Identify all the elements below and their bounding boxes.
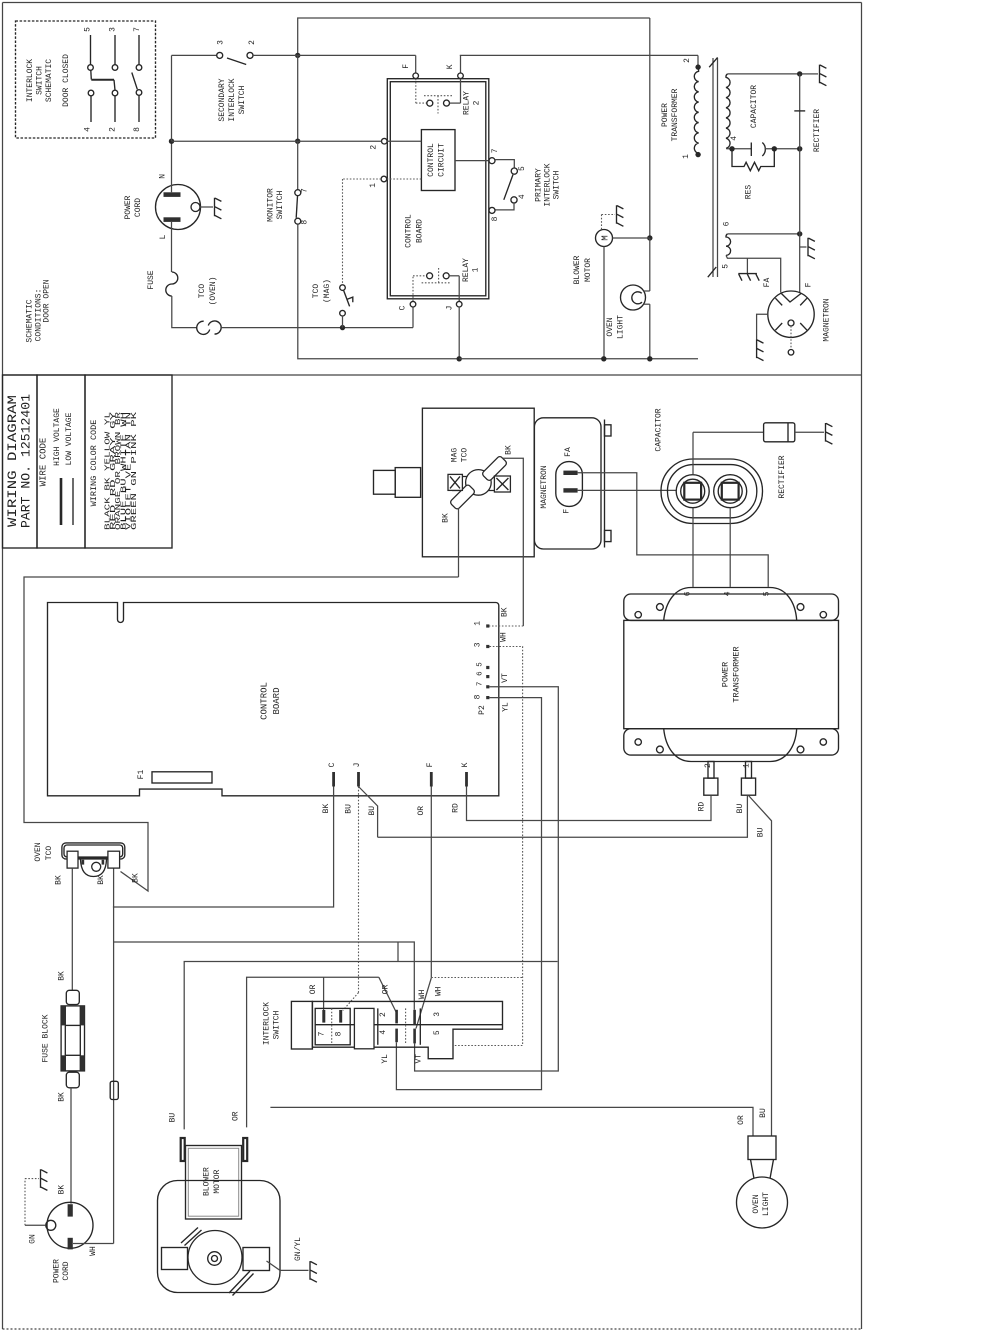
blower right tab [243, 1248, 270, 1271]
wire pin1 to TCO mag [343, 178, 382, 180]
primary interlock lead 7-5 [495, 160, 514, 168]
node HV top junction [797, 71, 802, 76]
svg-text:WIRING COLOR CODE: WIRING COLOR CODE [89, 420, 99, 507]
interlock slot 7 [322, 1010, 325, 1023]
transformer HV secondary winding [726, 74, 730, 148]
svg-text:DOOR OPEN: DOOR OPEN [43, 279, 52, 322]
svg-text:WH: WH [89, 1246, 98, 1256]
wire pin J BU dotted drop [358, 787, 360, 993]
node LV top junction [797, 231, 802, 236]
capacitor C1 plates [750, 143, 752, 157]
page border bottom [3, 1328, 862, 1330]
title block box 3 [85, 375, 172, 548]
svg-text:OVEN: OVEN [34, 842, 43, 861]
control board pin J tab [357, 772, 360, 787]
svg-text:1: 1 [472, 267, 481, 272]
svg-text:2: 2 [683, 58, 692, 63]
wire line A drop [649, 18, 651, 238]
svg-text:POWER: POWER [53, 1259, 62, 1283]
svg-text:5: 5 [433, 1030, 442, 1035]
svg-text:4: 4 [724, 591, 733, 596]
wire fuse block down [70, 1088, 72, 1204]
transformer pin 2 stub [708, 762, 714, 779]
title block box 1 [3, 375, 38, 548]
wire H4 dotted [431, 977, 522, 979]
mag TCO terminal upper [481, 455, 507, 481]
node TCO MAG junction [340, 325, 345, 330]
P2 pin 3 square [486, 645, 489, 648]
oven light neck [751, 1160, 755, 1179]
oven TCO bar [78, 857, 108, 859]
magnetron body edge [604, 420, 606, 548]
oven light lamp [621, 285, 646, 310]
svg-text:3: 3 [217, 40, 226, 45]
wire BU blower run [184, 962, 557, 1130]
svg-text:VT: VT [501, 673, 510, 683]
power cord bottom blade [68, 1238, 73, 1250]
svg-text:RD: RD [451, 803, 460, 813]
svg-text:F: F [426, 762, 435, 767]
transformer LV winding [726, 234, 731, 256]
wire M down [603, 247, 605, 359]
node blower junction [647, 235, 652, 240]
node transformer pin 2 [695, 64, 700, 69]
svg-text:BU: BU [757, 827, 766, 837]
ground at LV winding [746, 258, 748, 273]
svg-text:BLOWER: BLOWER [203, 1167, 212, 1196]
wire P2 pin 3 WH [453, 647, 523, 1046]
svg-text:MOTOR: MOTOR [213, 1169, 222, 1193]
svg-text:BK: BK [442, 513, 451, 523]
svg-text:4: 4 [730, 136, 739, 141]
transformer body [624, 620, 839, 728]
power cord plug circle [156, 185, 201, 230]
section divider [3, 374, 862, 376]
svg-text:CAPACITOR: CAPACITOR [750, 85, 759, 128]
wire pin2 to control circuit [387, 140, 421, 142]
power cord top blade [68, 1204, 73, 1216]
svg-text:TRANSFORMER: TRANSFORMER [671, 88, 680, 141]
interlock 7-8 divider [331, 1008, 333, 1044]
interlock 7-8 box [315, 1008, 350, 1044]
wire HV top [728, 73, 800, 75]
ground at power cord [215, 198, 222, 219]
blower hub [208, 1252, 222, 1266]
interlock switch body [312, 1001, 502, 1058]
transformer core [712, 58, 714, 277]
svg-text:RELAY: RELAY [463, 91, 472, 115]
mag TCO lug [374, 470, 396, 494]
svg-text:BK: BK [97, 875, 106, 885]
page border top [3, 2, 862, 4]
wire HV bottom [726, 148, 751, 150]
svg-text:(MAG): (MAG) [323, 279, 332, 303]
svg-text:3: 3 [109, 27, 118, 32]
wire monitor upper [297, 55, 299, 141]
svg-text:CONTROL: CONTROL [405, 214, 414, 248]
wire capacitor right [765, 148, 800, 150]
svg-text:CORD: CORD [134, 198, 143, 217]
svg-text:PART NO. 12512401: PART NO. 12512401 [20, 394, 34, 528]
oven TCO body [62, 843, 125, 859]
wire TCO mag to L bus [342, 316, 344, 328]
P2 pin 7 square [486, 685, 489, 688]
primary interlock contact 5 [511, 168, 517, 174]
svg-text:F: F [563, 509, 572, 514]
svg-text:7: 7 [317, 1031, 326, 1036]
transformer top hump [664, 588, 797, 621]
transformer top flange [624, 594, 839, 620]
svg-text:TCO: TCO [312, 284, 321, 299]
wire pin C riser [412, 307, 414, 328]
svg-text:7: 7 [301, 188, 310, 193]
interlock switch left cap [291, 1001, 312, 1049]
oven TCO tab left [82, 860, 85, 865]
wire BU pin1 to oven light [749, 796, 772, 1137]
wire power cord ground [200, 206, 213, 208]
magnetron body [534, 418, 601, 549]
primary interlock contact 4 [511, 197, 517, 203]
ground at HV secondary [820, 65, 827, 86]
wire OR to oven light [270, 1107, 753, 1136]
svg-text:2: 2 [370, 145, 379, 150]
svg-text:1: 1 [743, 763, 752, 768]
control board box [48, 603, 499, 796]
svg-text:FUSE BLOCK: FUSE BLOCK [42, 1014, 51, 1062]
svg-text:RD: RD [697, 802, 706, 812]
wire P2 pin 8 YL [396, 698, 541, 1090]
svg-text:VT: VT [415, 1054, 424, 1064]
svg-text:7: 7 [491, 148, 500, 153]
svg-text:7: 7 [133, 27, 142, 32]
node lamp bus junction [647, 356, 652, 361]
mag TCO disc [466, 470, 492, 496]
monitor switch blade [296, 196, 297, 218]
fuse block tube [64, 1006, 66, 1071]
fuse block bottom cap [66, 1072, 79, 1088]
wire magnetron case ground [757, 314, 768, 339]
transformer bottom flange holes [635, 739, 641, 745]
wire oven TCO down [71, 868, 73, 990]
wire pin K segment [460, 54, 698, 56]
pin F [415, 55, 417, 73]
wire line A top [298, 18, 650, 55]
wire OR slot7 drop [323, 977, 325, 1011]
svg-text:BK: BK [500, 607, 509, 617]
svg-text:HIGH VOLTAGE: HIGH VOLTAGE [53, 408, 62, 466]
control circuit box [421, 130, 455, 191]
P2 pin 5 square [486, 666, 489, 669]
TCO mag blade [344, 290, 350, 306]
svg-text:K: K [446, 64, 455, 69]
ground at rectifier [826, 423, 833, 444]
svg-text:1: 1 [682, 154, 691, 159]
svg-text:C: C [328, 762, 337, 767]
oven TCO arch [81, 860, 107, 877]
node transformer pin 1 [695, 152, 700, 157]
svg-text:4: 4 [84, 127, 93, 132]
svg-text:1: 1 [474, 621, 483, 626]
svg-text:OVEN: OVEN [606, 317, 615, 336]
svg-text:N: N [159, 174, 168, 179]
ground at magnetron [757, 340, 764, 361]
wire bottom bus [459, 358, 698, 360]
svg-text:J: J [446, 306, 455, 311]
secondary interlock contact 2 [247, 52, 253, 58]
svg-text:BK: BK [132, 873, 141, 883]
magnetron terminal F bar [563, 488, 577, 492]
fuse block clip BR [80, 1055, 84, 1071]
interlock slot 8 [339, 1010, 342, 1023]
svg-text:FA: FA [564, 447, 573, 457]
svg-text:F1: F1 [137, 770, 146, 780]
svg-text:CIRCUIT: CIRCUIT [438, 143, 447, 177]
svg-text:L: L [159, 234, 168, 239]
oven light bulb [737, 1177, 788, 1228]
pin 7 [489, 158, 495, 164]
svg-text:OR: OR [737, 1115, 746, 1125]
WH connector [110, 1081, 118, 1099]
wire pin J slant [359, 787, 378, 838]
svg-text:K: K [461, 762, 470, 767]
svg-text:OVEN: OVEN [752, 1194, 761, 1213]
relay 2 [415, 79, 417, 104]
svg-text:2: 2 [473, 100, 482, 105]
svg-text:4: 4 [518, 194, 527, 199]
TCO mag thermal tick [347, 297, 353, 302]
svg-text:INTERLOCK: INTERLOCK [228, 78, 237, 121]
node N junction [169, 139, 174, 144]
oven TCO terminal left [67, 851, 78, 868]
svg-text:FA: FA [763, 278, 772, 288]
wire WH run [113, 868, 115, 1243]
svg-text:BK: BK [322, 804, 331, 814]
svg-text:LOW VOLTAGE: LOW VOLTAGE [65, 412, 74, 465]
svg-text:P2: P2 [478, 705, 487, 715]
control board pin C tab [332, 772, 335, 787]
wire LV bottom [726, 255, 781, 292]
TCO oven symbol [197, 321, 210, 334]
mag TCO terminal lower [449, 484, 475, 510]
wire monitor lower [298, 224, 459, 359]
blower hatch lower [229, 1271, 250, 1293]
svg-text:MAG: MAG [451, 448, 460, 463]
power cord line blade [164, 217, 181, 222]
svg-text:4: 4 [379, 1030, 388, 1035]
svg-text:LIGHT: LIGHT [617, 315, 626, 339]
P2 pin 6 square [486, 675, 489, 678]
mag TCO screw left [448, 474, 462, 490]
primary interlock blade [504, 175, 513, 200]
wire N line [172, 140, 382, 142]
interlock divider right [377, 1008, 379, 1044]
resistor RES [732, 149, 774, 171]
rectifier line [799, 74, 801, 293]
interlock dashdot [405, 1008, 407, 1044]
svg-text:OR: OR [417, 806, 426, 816]
monitor switch contact 8 [295, 218, 301, 224]
capacitor outer [661, 459, 763, 524]
svg-text:POWER: POWER [124, 195, 133, 219]
svg-text:MAGNETRON: MAGNETRON [540, 465, 549, 508]
wire GN [25, 1224, 46, 1226]
svg-text:6: 6 [684, 591, 693, 596]
magnetron filament V [781, 294, 801, 303]
wire N lead [171, 141, 173, 192]
svg-text:F: F [805, 282, 814, 287]
wire FA to transformer 5 [578, 473, 769, 587]
wire BU dotted slant [343, 993, 359, 1011]
wire capacitor to rectifier [692, 432, 694, 474]
wire pin F OR drop [430, 787, 432, 978]
blower BU terminal [181, 1138, 185, 1161]
svg-text:WIRING DIAGRAM: WIRING DIAGRAM [6, 395, 20, 527]
capacitor inner [668, 465, 757, 518]
wire M to junction [613, 237, 650, 239]
control board pin K tab [465, 772, 468, 787]
interlock center block [354, 1008, 374, 1048]
svg-text:3: 3 [474, 642, 483, 647]
svg-text:SCHEMATIC: SCHEMATIC [45, 59, 54, 102]
power cord neutral blade [164, 192, 181, 197]
svg-text:CORD: CORD [62, 1261, 71, 1280]
wire P2 pin 7 VT [415, 687, 559, 1071]
interlock slot 3 [413, 1010, 416, 1025]
wire BK main run [24, 577, 459, 891]
node M bus junction [601, 356, 606, 361]
svg-text:M: M [601, 235, 611, 240]
svg-text:C: C [399, 305, 408, 310]
svg-text:DOOR CLOSED: DOOR CLOSED [62, 54, 71, 107]
svg-text:5: 5 [477, 662, 485, 667]
page border right [861, 3, 863, 1330]
ground at power cord GN [41, 1169, 48, 1190]
capacitor terminal right [714, 475, 747, 508]
svg-text:TCO: TCO [461, 448, 470, 463]
wire mag TCO upper BK [502, 458, 523, 626]
pin 8 [489, 207, 495, 213]
oven light socket [748, 1136, 776, 1160]
svg-text:8: 8 [474, 694, 483, 699]
wire control circuit to pin 7 [455, 160, 489, 162]
blower hatch upper [181, 1228, 198, 1244]
node capacitor right junction [797, 146, 802, 151]
wire TCO mag riser [342, 179, 344, 285]
wire monitor to switch [297, 141, 299, 189]
fuse block clip TL [61, 1006, 65, 1026]
svg-text:8: 8 [133, 127, 142, 132]
svg-text:BK: BK [505, 445, 514, 455]
blower OR terminal [243, 1138, 247, 1161]
svg-text:YL: YL [381, 1054, 390, 1064]
node pin J bus junction [457, 356, 462, 361]
svg-text:SWITCH: SWITCH [553, 170, 562, 199]
ground at filament [808, 238, 815, 259]
svg-text:5: 5 [518, 166, 527, 171]
svg-text:BU: BU [168, 1113, 177, 1123]
wire L lead [171, 222, 173, 272]
P2 pin 8 square [486, 696, 489, 699]
magnetron terminal FA bar [563, 471, 577, 475]
interlock slot 2 [395, 1010, 398, 1024]
svg-text:7: 7 [477, 682, 485, 687]
fuse block top cap [66, 990, 79, 1004]
wire contact2 to pin F [253, 54, 416, 56]
svg-text:RECTIFIER: RECTIFIER [778, 455, 787, 498]
node monitor top junction [295, 53, 300, 58]
wire capacitor to transformer 4 [729, 508, 731, 587]
node res left junction [729, 146, 734, 151]
interlock switch schematic legend box [16, 21, 156, 138]
svg-text:BK: BK [58, 1185, 67, 1195]
control board outer box [387, 79, 489, 299]
low voltage sample [72, 478, 74, 525]
wire BU pin1 to pin J [378, 795, 748, 837]
interlock switch midline [315, 1024, 502, 1026]
power cord circle [47, 1202, 93, 1248]
svg-text:FUSE: FUSE [147, 270, 156, 289]
wire rectifier to ground [795, 431, 824, 433]
svg-text:1: 1 [369, 183, 378, 188]
svg-text:INTERLOCK: INTERLOCK [544, 163, 553, 206]
svg-text:J: J [353, 763, 362, 768]
wire WH from cord [73, 1243, 114, 1245]
svg-text:SWITCH: SWITCH [36, 66, 45, 95]
high voltage sample [60, 478, 63, 525]
svg-text:8: 8 [491, 216, 500, 221]
wire OR steep slant [416, 978, 431, 1029]
relay 1 [412, 276, 414, 302]
wire lamp to bus [649, 304, 651, 359]
wire pin J to bus [458, 307, 460, 359]
ground at blower GN YL [310, 1261, 317, 1282]
rectifier tick [794, 110, 805, 112]
svg-text:WIRE CODE: WIRE CODE [39, 438, 49, 487]
blower left tab [162, 1248, 188, 1270]
pin J [456, 301, 462, 307]
blower body [158, 1181, 281, 1293]
svg-text:RES: RES [745, 185, 754, 200]
pin K [460, 55, 462, 73]
svg-text:2: 2 [248, 40, 257, 45]
oven TCO terminal right [108, 851, 120, 868]
fuse block body [61, 1006, 84, 1071]
svg-text:POWER: POWER [661, 103, 670, 127]
oven light leads [644, 290, 650, 292]
svg-text:CONTROL: CONTROL [260, 682, 270, 720]
svg-text:BU: BU [759, 1108, 768, 1118]
TCO mag contact bottom [340, 310, 346, 316]
monitor switch contact 7 [295, 190, 301, 196]
svg-text:6: 6 [723, 221, 732, 226]
pin 2 [382, 138, 388, 144]
wire OR slot2 slant [379, 977, 397, 1013]
wire junction to lamp [649, 238, 651, 291]
control board pin F tab [430, 772, 433, 787]
svg-text:TCO: TCO [198, 284, 207, 299]
svg-text:F: F [402, 64, 411, 69]
svg-text:SWITCH: SWITCH [273, 1010, 282, 1039]
node monitor mid junction [295, 139, 300, 144]
svg-text:POWER: POWER [721, 662, 731, 688]
svg-text:OR: OR [382, 984, 391, 994]
wire capacitor to transformer 6 [692, 508, 694, 587]
transformer bottom flange [624, 729, 839, 755]
interlock divider 3-5 [419, 1008, 421, 1044]
P2 pin 1 square [486, 624, 489, 627]
fuse symbol [166, 272, 178, 296]
blower motor circle [596, 230, 613, 247]
